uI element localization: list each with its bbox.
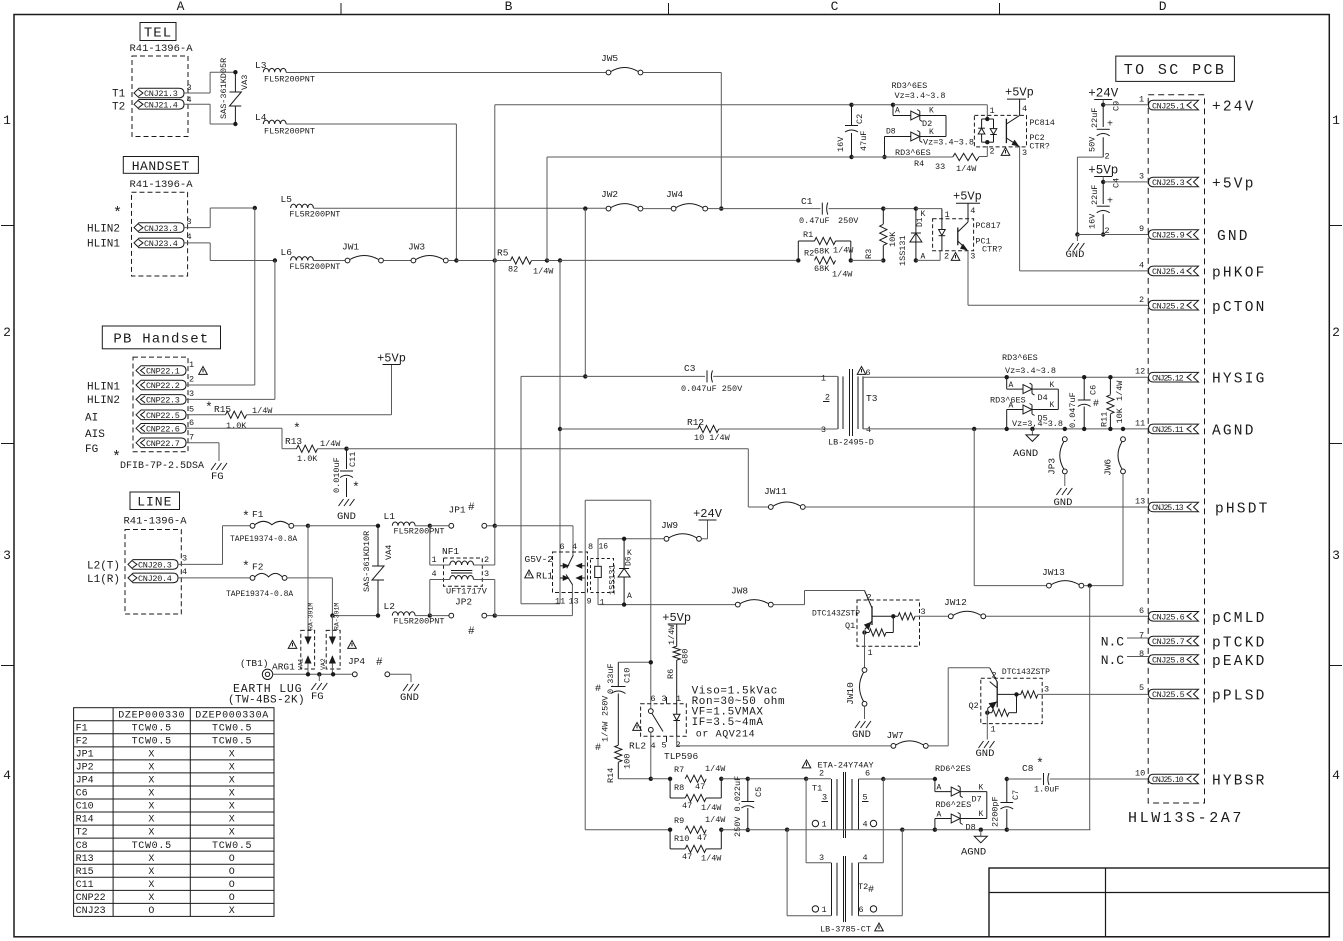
svg-text:TCW0.5: TCW0.5 xyxy=(212,736,252,747)
junction D8 anode xyxy=(933,828,937,832)
wire R9R10 to C5 bottom xyxy=(721,829,748,831)
svg-text:CNJ23: CNJ23 xyxy=(76,906,106,917)
svg-text:16V: 16V xyxy=(836,136,846,152)
svg-text:CNJ25.11: CNJ25.11 xyxy=(1152,426,1184,435)
TLP596 LED and pin2 xyxy=(676,704,678,715)
svg-text:4: 4 xyxy=(187,95,192,105)
svg-text:F1: F1 xyxy=(76,723,88,734)
svg-text:*: * xyxy=(242,509,250,524)
svg-text:6: 6 xyxy=(189,418,194,428)
relay lower pole contact xyxy=(566,575,573,585)
svg-text:JW11: JW11 xyxy=(764,486,787,497)
junction NF1 pin2 riser xyxy=(493,524,497,528)
LINE header box xyxy=(130,492,180,510)
svg-text:A: A xyxy=(177,0,185,14)
svg-text:JW4: JW4 xyxy=(666,189,683,200)
svg-text:RL2: RL2 xyxy=(629,741,646,752)
svg-text:4: 4 xyxy=(3,768,11,783)
GND row to CNJ25.9 xyxy=(1075,232,1079,236)
wire CNJ21.3 to VA3 riser xyxy=(184,92,210,94)
jumper JW13 xyxy=(1047,583,1052,588)
+24V rail (JW9) xyxy=(701,538,707,540)
wire JW5 to JW2-line corner xyxy=(643,72,721,74)
svg-text:O: O xyxy=(229,867,236,878)
svg-text:JW9: JW9 xyxy=(661,520,678,531)
connector CNJ23 dashed outline xyxy=(132,192,188,276)
wire C2 bottom line xyxy=(547,156,852,158)
svg-text:1: 1 xyxy=(822,820,827,830)
wire L5 row to JW2 xyxy=(313,207,606,209)
warning mark PC817 xyxy=(951,253,960,261)
svg-text:X: X xyxy=(148,828,155,839)
wire riser R5-R12-relay (x=560) xyxy=(559,261,561,430)
svg-text:1: 1 xyxy=(990,106,995,116)
svg-text:3: 3 xyxy=(1139,172,1144,182)
junction D6 cathode xyxy=(622,537,626,541)
wire TLP596 pin2 to JW7 xyxy=(677,745,891,747)
junction L5 drop to CNP22.2 xyxy=(253,206,257,210)
wire D7-D8 cathode bracket xyxy=(960,791,987,793)
svg-text:16V: 16V xyxy=(1088,213,1098,229)
transistor Q1 DTC143ZSTP dashed box xyxy=(857,600,920,646)
connector pin CNJ25.1 xyxy=(1149,100,1199,110)
wire R13-line to JW11 corner xyxy=(347,448,749,450)
svg-text:GND: GND xyxy=(337,511,356,523)
svg-text:R4: R4 xyxy=(914,159,924,169)
svg-text:4: 4 xyxy=(863,820,868,830)
svg-text:1/4W: 1/4W xyxy=(701,803,722,813)
svg-text:B: B xyxy=(505,0,513,14)
svg-text:R3: R3 xyxy=(864,249,874,259)
svg-text:CNJ25.9: CNJ25.9 xyxy=(1152,231,1185,241)
photorelay TLP596 dashed box xyxy=(641,704,687,737)
resistor R11 10K 1/4W xyxy=(1109,377,1111,394)
junction T2 left riser xyxy=(804,777,808,781)
warning mark PC814 xyxy=(1001,148,1010,156)
svg-text:LB-3785-CT: LB-3785-CT xyxy=(820,925,871,935)
ground (Q1) xyxy=(855,721,860,728)
TLP596 switch contact xyxy=(648,709,653,714)
svg-text:TCW0.5: TCW0.5 xyxy=(212,723,252,734)
svg-text:R15: R15 xyxy=(76,867,94,878)
svg-text:3: 3 xyxy=(1332,548,1340,563)
ground (JP4) xyxy=(403,684,408,691)
svg-text:4: 4 xyxy=(863,853,868,863)
svg-text:O: O xyxy=(229,854,236,865)
svg-text:HLIN2: HLIN2 xyxy=(87,224,120,236)
svg-text:HLIN1: HLIN1 xyxy=(87,382,120,394)
svg-text:K: K xyxy=(1050,401,1055,410)
svg-text:C10: C10 xyxy=(623,668,633,683)
Q2 emitter to GND xyxy=(986,711,988,740)
jumper JW2 xyxy=(606,206,611,211)
Q1 transistor symbol xyxy=(871,606,873,625)
svg-text:C1: C1 xyxy=(801,196,813,207)
wire VA1 drop xyxy=(307,526,309,637)
svg-text:T1: T1 xyxy=(812,784,822,794)
connector pin CNP22.3 xyxy=(136,395,186,405)
junction D1 bottom xyxy=(914,258,918,262)
svg-text:C11: C11 xyxy=(348,452,358,467)
svg-text:4: 4 xyxy=(572,542,577,552)
svg-text:SAS-361KD10R: SAS-361KD10R xyxy=(362,531,372,592)
jumper JW11 xyxy=(768,505,773,510)
svg-text:2: 2 xyxy=(1332,325,1340,340)
wire JW3 to junction xyxy=(448,260,456,262)
svg-text:CNJ25.10: CNJ25.10 xyxy=(1152,776,1184,785)
connector pin CNJ25.3 xyxy=(1149,177,1199,187)
relay coil dashed box xyxy=(591,559,614,593)
svg-text:3: 3 xyxy=(1022,148,1027,158)
ground C11 xyxy=(339,499,344,506)
svg-text:IF=3.5~4mA: IF=3.5~4mA xyxy=(692,717,764,729)
svg-text:10K: 10K xyxy=(888,231,898,247)
svg-text:CNP22.3: CNP22.3 xyxy=(146,396,180,406)
svg-text:1/4W: 1/4W xyxy=(601,721,611,742)
svg-text:1: 1 xyxy=(432,555,437,565)
wire JW6 down to JW13 row xyxy=(1122,474,1124,586)
svg-text:R13: R13 xyxy=(76,854,94,865)
svg-text:3: 3 xyxy=(970,252,975,262)
svg-text:VA2: VA2 xyxy=(320,658,327,670)
svg-text:O: O xyxy=(229,893,236,904)
svg-text:+5Vp: +5Vp xyxy=(1212,177,1256,193)
wire CNJ23.4 to L6 row xyxy=(184,242,210,244)
svg-text:1: 1 xyxy=(3,113,11,128)
junction C5 top xyxy=(746,777,750,781)
svg-text:JP4: JP4 xyxy=(76,776,94,787)
svg-text:DFIB-7P-2.5DSA: DFIB-7P-2.5DSA xyxy=(120,461,204,472)
junction C3 drop xyxy=(583,206,587,210)
capacitor C6 0.047uF xyxy=(1083,377,1085,400)
svg-text:GND: GND xyxy=(976,748,995,760)
svg-text:R10: R10 xyxy=(674,834,689,844)
svg-text:L2: L2 xyxy=(384,601,396,612)
warning + label ETA-24Y74AY xyxy=(802,760,811,768)
PC814 transistor xyxy=(1005,119,1007,143)
wire C2 top line xyxy=(495,104,852,106)
svg-text:4: 4 xyxy=(970,206,975,216)
svg-text:2200pF: 2200pF xyxy=(991,796,1001,827)
ruler ticks left xyxy=(1,225,14,227)
wire L2 to JP2 xyxy=(415,615,427,617)
wire L1 to JP1 xyxy=(415,525,427,527)
svg-text:+5Vp: +5Vp xyxy=(1005,86,1034,100)
svg-text:AGND: AGND xyxy=(961,847,986,859)
connector pin CNJ25.9 xyxy=(1149,230,1199,240)
svg-text:pTCKD: pTCKD xyxy=(1212,636,1267,652)
svg-text:C6: C6 xyxy=(76,789,88,800)
junction NF1 pin4 drop xyxy=(428,613,432,617)
svg-text:C6: C6 xyxy=(1089,385,1099,395)
svg-text:22uF: 22uF xyxy=(1090,185,1100,205)
svg-text:3: 3 xyxy=(189,389,194,399)
junction VA3 top xyxy=(233,70,237,74)
svg-text:Vz=3,4~3.8: Vz=3,4~3.8 xyxy=(1012,419,1063,429)
AGND symbol (bottom) xyxy=(980,830,982,837)
wire C8 to HYBSR xyxy=(1050,778,1149,780)
wire F1 to L1 xyxy=(294,525,308,527)
ground (Q2) xyxy=(979,741,984,748)
svg-text:3: 3 xyxy=(484,569,489,579)
wire R14 to R7 row xyxy=(618,778,651,780)
wire JW4 to C1 xyxy=(708,208,722,210)
wire CNP22.6 to R13 xyxy=(186,427,282,429)
wire JP1-line down to relay arm xyxy=(572,526,574,555)
svg-text:TCW0.5: TCW0.5 xyxy=(132,841,172,852)
svg-text:CNP22: CNP22 xyxy=(76,893,106,904)
svg-text:X: X xyxy=(148,854,155,865)
wire PC814 pin3 to pHKOF xyxy=(1019,146,1021,271)
svg-text:pPLSD: pPLSD xyxy=(1212,689,1267,705)
svg-text:*: * xyxy=(1036,756,1044,771)
svg-text:O: O xyxy=(148,906,155,917)
svg-text:X: X xyxy=(148,802,155,813)
svg-text:CNJ25.8: CNJ25.8 xyxy=(1152,656,1185,666)
svg-text:50V: 50V xyxy=(1088,136,1098,152)
svg-text:9: 9 xyxy=(1139,224,1144,234)
svg-text:100: 100 xyxy=(623,754,633,769)
svg-text:4: 4 xyxy=(1332,768,1340,783)
svg-text:JP1: JP1 xyxy=(76,749,94,760)
svg-text:Q1: Q1 xyxy=(845,621,855,631)
junction C6 bottom xyxy=(1082,427,1086,431)
svg-text:*: * xyxy=(242,559,250,574)
svg-text:+24V: +24V xyxy=(693,507,723,521)
svg-text:7: 7 xyxy=(1139,631,1144,641)
capacitor C5 0.022uF 250V xyxy=(747,779,749,802)
resistor R14 100 xyxy=(615,745,622,762)
svg-text:Vz=3.4~3.8: Vz=3.4~3.8 xyxy=(895,91,946,101)
svg-text:8: 8 xyxy=(1139,649,1144,659)
svg-text:R1: R1 xyxy=(803,230,813,240)
svg-text:82: 82 xyxy=(508,265,518,275)
svg-text:#: # xyxy=(376,657,383,669)
svg-text:+24V: +24V xyxy=(1212,100,1256,116)
svg-text:FL5R200PNT: FL5R200PNT xyxy=(394,527,445,537)
jumper JW1 xyxy=(345,258,350,263)
svg-text:JP3: JP3 xyxy=(1047,458,1058,475)
svg-text:CNP22.6: CNP22.6 xyxy=(146,425,180,435)
jumper JW8 xyxy=(735,602,740,607)
svg-text:HLIN1: HLIN1 xyxy=(87,239,120,251)
ground FG (CNP22.7) xyxy=(211,463,216,470)
svg-text:K: K xyxy=(929,107,934,116)
svg-text:68K: 68K xyxy=(814,247,830,257)
junction C2 bottom xyxy=(849,155,853,159)
svg-text:10 1/4W: 10 1/4W xyxy=(694,433,731,443)
svg-text:D1: D1 xyxy=(916,217,925,227)
junction D1 top xyxy=(914,206,918,210)
svg-text:RA-391M: RA-391M xyxy=(308,603,315,630)
svg-text:C11: C11 xyxy=(76,880,94,891)
wire JP1 to relay xyxy=(487,525,495,527)
svg-text:4: 4 xyxy=(1022,104,1027,114)
capacitor C11 0.010uF xyxy=(346,449,348,469)
PB Handset header box xyxy=(102,326,220,349)
junction C6 top xyxy=(1082,375,1086,379)
svg-text:JW3: JW3 xyxy=(408,242,425,253)
jumper JW3 xyxy=(411,258,416,263)
wire T3 pin4 AGND row xyxy=(863,428,1149,430)
wire JP3 to GND xyxy=(1064,474,1066,486)
junction D2 leg xyxy=(891,103,895,107)
svg-text:FL5R200PNT: FL5R200PNT xyxy=(264,75,315,85)
svg-text:HYSIG: HYSIG xyxy=(1212,372,1267,388)
svg-text:3: 3 xyxy=(821,425,826,435)
svg-text:CNJ25.4: CNJ25.4 xyxy=(1152,267,1185,277)
svg-text:250V 0.022uF: 250V 0.022uF xyxy=(733,776,743,837)
junction NF1 pin3 riser xyxy=(493,613,497,617)
svg-text:9: 9 xyxy=(587,597,592,607)
svg-text:13: 13 xyxy=(569,597,579,607)
varistor VA4 SAS-361KD10R xyxy=(377,526,379,566)
svg-text:ARG1: ARG1 xyxy=(272,662,295,673)
junction VA4 top xyxy=(376,524,380,528)
svg-text:TCW0.5: TCW0.5 xyxy=(132,736,172,747)
svg-text:6: 6 xyxy=(866,368,871,378)
connector pin CNJ23.4 xyxy=(134,238,184,248)
ruler ticks right xyxy=(1329,225,1342,227)
relay upper pole contact xyxy=(567,555,574,568)
capacitor C10 0.33uF xyxy=(618,661,651,663)
svg-text:13: 13 xyxy=(1135,497,1145,507)
svg-text:CNJ25.12: CNJ25.12 xyxy=(1152,374,1184,383)
svg-text:FL5R200PNT: FL5R200PNT xyxy=(264,127,315,137)
wire drop JW2-line to C3 line xyxy=(584,209,586,377)
junction VA2 drop xyxy=(330,613,334,617)
junction VA2 bottom xyxy=(331,672,335,676)
wire JW11 to pHSDT xyxy=(805,506,1148,508)
junction C3 drop from JW2-line xyxy=(583,374,587,378)
svg-text:SAS-361KD05R: SAS-361KD05R xyxy=(219,58,229,119)
svg-text:1/4W: 1/4W xyxy=(705,815,726,825)
svg-text:A: A xyxy=(627,592,632,601)
svg-text:X: X xyxy=(229,749,236,760)
PC817 transistor xyxy=(957,228,959,246)
svg-text:1SS131: 1SS131 xyxy=(608,564,618,595)
wire riser D2/D8 line to JP1 line (x=495) xyxy=(494,105,496,261)
junction C5 bottom xyxy=(746,828,750,832)
svg-text:T3: T3 xyxy=(866,393,878,404)
wire R15 to +5Vp drop xyxy=(247,414,392,416)
svg-text:0.010uF: 0.010uF xyxy=(332,457,342,493)
svg-text:X: X xyxy=(229,763,236,774)
wire CNP22.3 riser to L6 xyxy=(186,398,275,400)
svg-text:R41-1396-A: R41-1396-A xyxy=(129,179,193,191)
AGND symbol (T3) xyxy=(1031,429,1033,435)
svg-text:CTR?: CTR? xyxy=(1029,142,1049,152)
svg-text:R14: R14 xyxy=(76,815,94,826)
wire C1 to R3/D1 xyxy=(829,208,884,210)
wire R5 to junctions xyxy=(532,260,548,262)
resistor pair R9 R10 47 1/4W xyxy=(668,828,672,832)
svg-text:JW10: JW10 xyxy=(845,682,856,705)
arrester VA2 RA-391M dashed box xyxy=(326,630,340,669)
connector CNP22 dashed outline xyxy=(133,357,188,452)
wire C3 line xyxy=(521,375,585,377)
junction D6 anode xyxy=(622,602,626,606)
VA2 up arrow xyxy=(331,656,333,674)
connector CNJ21 dashed outline xyxy=(132,56,188,137)
VA1 up arrow xyxy=(307,656,309,674)
wire AGND row drop to JW13 xyxy=(972,427,976,431)
junction NF1 line riser xyxy=(493,258,497,262)
svg-text:4: 4 xyxy=(1139,261,1144,271)
svg-text:JW8: JW8 xyxy=(731,586,748,597)
junction VA1 drop xyxy=(306,524,310,528)
svg-text:K: K xyxy=(929,128,934,137)
svg-text:T2: T2 xyxy=(858,882,868,892)
wire L6 to JW1 xyxy=(313,260,345,262)
resistor R3 10K xyxy=(882,209,884,224)
earth lug terminal xyxy=(262,669,272,679)
transformer T2 lower xyxy=(805,779,807,863)
pi-link left leg down to R9 row xyxy=(584,578,586,830)
wire C9 to GND riser xyxy=(1077,156,1103,158)
svg-text:N.C: N.C xyxy=(1101,635,1125,650)
PC817 LED xyxy=(939,230,946,236)
junction JP3 xyxy=(1063,427,1067,431)
svg-text:2: 2 xyxy=(1105,152,1110,162)
svg-text:47: 47 xyxy=(682,852,692,862)
svg-text:F2: F2 xyxy=(252,562,264,573)
svg-text:CNJ25.1: CNJ25.1 xyxy=(1152,101,1185,111)
svg-text:VA3: VA3 xyxy=(240,75,250,90)
svg-text:5: 5 xyxy=(662,741,667,751)
svg-text:1: 1 xyxy=(600,598,605,608)
svg-text:or AQV214: or AQV214 xyxy=(696,730,755,741)
svg-text:Vz=3.4~3.8: Vz=3.4~3.8 xyxy=(1005,366,1056,376)
svg-text:1.0uF: 1.0uF xyxy=(1034,785,1060,795)
svg-text:16: 16 xyxy=(599,543,609,552)
svg-text:2: 2 xyxy=(1139,295,1144,305)
svg-text:JW7: JW7 xyxy=(887,730,904,741)
svg-text:#: # xyxy=(595,684,601,695)
svg-text:X: X xyxy=(229,828,236,839)
wire JW12 to pCMLD xyxy=(986,615,1149,617)
junction C2-bottom riser xyxy=(545,258,549,262)
svg-text:R41-1396-A: R41-1396-A xyxy=(129,43,193,55)
svg-text:R5: R5 xyxy=(497,248,509,259)
jumper JP3 vertical xyxy=(1062,437,1067,442)
junction AGND triangle xyxy=(1030,427,1034,431)
svg-text:L3: L3 xyxy=(255,60,267,71)
svg-text:pCTON: pCTON xyxy=(1212,300,1267,316)
svg-text:PC814: PC814 xyxy=(1029,118,1055,128)
svg-text:3: 3 xyxy=(3,548,11,563)
svg-text:D8: D8 xyxy=(886,128,896,137)
wire relay coil top rail xyxy=(598,538,665,540)
relay coil xyxy=(595,566,602,577)
svg-text:C8: C8 xyxy=(1022,763,1034,774)
wire CNP22.5 to R15 xyxy=(186,414,226,416)
svg-text:1: 1 xyxy=(991,725,996,735)
svg-text:JW2: JW2 xyxy=(601,189,618,200)
junction L4 riser xyxy=(454,258,458,262)
capacitor C4 22uF 16V xyxy=(1102,182,1104,204)
+5Vp rail (R15) xyxy=(391,365,393,415)
svg-text:T2: T2 xyxy=(112,102,125,114)
warning mark VA2 xyxy=(348,641,357,649)
svg-text:4: 4 xyxy=(866,425,871,435)
TEL header box xyxy=(140,23,176,41)
svg-text:F2: F2 xyxy=(76,736,88,747)
wire riser L4-JW1 line xyxy=(455,124,457,261)
svg-text:A: A xyxy=(895,107,900,116)
svg-text:CNJ20.4: CNJ20.4 xyxy=(138,574,172,584)
connector pin CNP22.6 xyxy=(136,424,186,434)
